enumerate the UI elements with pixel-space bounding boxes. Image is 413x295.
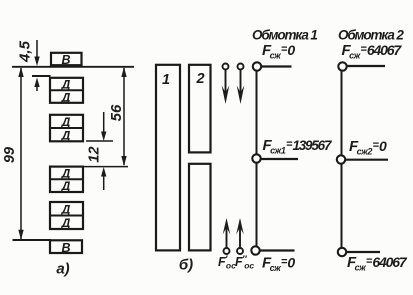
svg-text:Fсж=64067: Fсж=64067: [342, 42, 403, 61]
force arrow down 2: [237, 64, 245, 105]
winding 1 node top: [253, 62, 261, 70]
svg-text:Д: Д: [61, 202, 71, 216]
dimension 56: [108, 67, 127, 166]
conductor 1: [156, 65, 180, 251]
dimension 99: [2, 67, 24, 240]
winding 2 bottom branch wire: [344, 251, 380, 253]
svg-text:Обмотка 1: Обмотка 1: [252, 28, 317, 43]
svg-text:56: 56: [108, 104, 125, 121]
winding 2 node top: [338, 62, 346, 70]
coil pair D1: [50, 78, 83, 105]
ledger line pair1 top: [32, 75, 51, 77]
force arrow down 1: [222, 64, 230, 105]
winding 1 top branch wire: [259, 65, 292, 67]
winding 1 node bottom: [251, 246, 259, 254]
force arrow up F'oc: [223, 218, 231, 254]
svg-text:Д: Д: [61, 128, 71, 142]
svg-text:Д: Д: [61, 216, 71, 230]
coil pair D2: [50, 115, 83, 143]
top baseline wire: [12, 66, 134, 68]
force arrow up F''oc: [236, 218, 244, 254]
svg-text:В: В: [61, 241, 70, 255]
svg-text:2: 2: [195, 71, 204, 87]
winding 1 node middle: [252, 154, 260, 162]
winding 2 vertical wire: [341, 67, 343, 253]
winding 2 node middle: [337, 155, 345, 163]
winding 2 node bottom: [338, 248, 346, 256]
svg-text:Д: Д: [61, 115, 71, 129]
svg-text:а): а): [56, 261, 69, 278]
svg-text:б): б): [179, 257, 193, 274]
svg-text:12: 12: [87, 146, 103, 162]
coil pair D4: [50, 202, 83, 230]
svg-text:Д: Д: [61, 179, 71, 193]
dimension 4,5: [17, 40, 40, 91]
winding 1 middle branch wire: [259, 158, 298, 160]
winding 1 vertical wire: [256, 67, 258, 251]
winding 1 bottom branch wire: [258, 249, 295, 251]
svg-text:В: В: [61, 53, 70, 67]
svg-text:99: 99: [2, 147, 18, 163]
conductor 2 upper: [189, 65, 211, 153]
svg-text:1: 1: [162, 72, 170, 88]
coil B bottom: [50, 240, 82, 255]
svg-text:Fсж=64067: Fсж=64067: [347, 254, 408, 273]
svg-text:Д: Д: [61, 90, 71, 104]
svg-text:4,5: 4,5: [17, 40, 34, 63]
bottom baseline wire: [13, 239, 52, 241]
winding 2 middle branch wire: [344, 159, 388, 161]
dimension 12: [84, 112, 128, 190]
coil B top: [51, 53, 82, 67]
svg-text:Обмотка 2: Обмотка 2: [338, 28, 404, 43]
coil pair D3: [50, 166, 83, 193]
winding 2 top branch wire: [344, 65, 385, 67]
conductor 2 lower: [189, 164, 211, 251]
